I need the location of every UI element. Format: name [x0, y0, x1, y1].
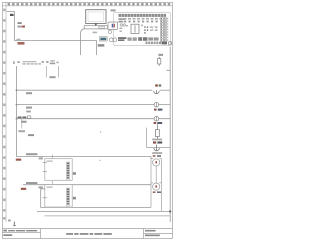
- rung2 label: [26, 107, 32, 109]
- fuse F上 label: [158, 54, 163, 56]
- junction dot at bus: [169, 211, 171, 213]
- socket symbol rung2: [154, 102, 159, 107]
- box1 label m: [73, 172, 76, 175]
- node label L+: [10, 14, 14, 16]
- PLC module second row marks: [120, 21, 158, 23]
- module bottom text row: [118, 37, 126, 41]
- motor2 return wire: [37, 210, 170, 212]
- bottom-left page mark: [8, 220, 16, 226]
- wire PC cable: [81, 29, 85, 55]
- rung3 text cluster on line: [18, 117, 27, 119]
- small device icon left of module: [108, 22, 118, 34]
- title block text left row2: [3, 234, 12, 236]
- motor series center wire: [155, 166, 157, 183]
- contact dots inside module: [144, 26, 148, 33]
- sensor label: [49, 76, 55, 78]
- box2 top pin tick: [52, 181, 54, 185]
- speck on rung: [100, 160, 101, 161]
- rung 3 wire: [17, 118, 171, 120]
- junction rung1: [16, 89, 18, 91]
- title block text left row1: [3, 230, 37, 232]
- right bus wire: [169, 47, 171, 223]
- speck mid page: [100, 131, 101, 132]
- PE return wire: [45, 215, 171, 217]
- teal status box under monitor: [99, 37, 107, 41]
- left bus wire: [17, 66, 152, 157]
- left ruler row numbers: [3, 9, 5, 220]
- socket symbol rung3: [154, 116, 159, 121]
- motor1 label pair: [153, 155, 156, 157]
- stub wire below rung3: [21, 119, 23, 129]
- terminal label row: [152, 139, 162, 141]
- plug symbol 2: [154, 145, 160, 151]
- wire L+ feed top-left: [7, 12, 97, 56]
- tiny text right of device icon: [118, 18, 125, 22]
- rung3 label below: [21, 121, 27, 123]
- PLC right pin column: [160, 18, 166, 42]
- plug label pair above: [155, 84, 158, 86]
- motor1 label row: [152, 152, 162, 154]
- rung1 label: [26, 92, 32, 94]
- motor1 red dot: [155, 161, 157, 163]
- fuse label F1 red: [18, 42, 25, 45]
- motor2 red dot: [155, 185, 157, 187]
- PLC module outline: [114, 13, 171, 46]
- wire rung corner to motor1: [150, 157, 152, 159]
- box2 rung labels: [26, 182, 37, 184]
- label wire end: [98, 44, 105, 46]
- title block center text: [66, 233, 112, 235]
- border frame outer: [3, 3, 173, 239]
- terminal strip row labels: [13, 60, 59, 64]
- rung3 label pair below: [154, 122, 157, 124]
- title block right texts: [145, 230, 160, 236]
- wire A motor2 feed: [23, 184, 151, 186]
- relay symbol inside module: [131, 24, 139, 33]
- sensor device legs: [47, 66, 59, 78]
- wire PE branch: [147, 128, 171, 148]
- top ruler column numbers: [8, 3, 171, 5]
- contact on rung3: [28, 116, 31, 119]
- box2 label m: [73, 197, 76, 200]
- rung 2 wire: [17, 104, 171, 106]
- starter box 2: [43, 185, 73, 207]
- faint circle inside module: [153, 27, 157, 31]
- box1 rung labels: [26, 153, 37, 155]
- plug symbol rung1: [154, 90, 160, 93]
- right bus tick: [167, 69, 170, 71]
- rung2 label pair below: [154, 109, 157, 111]
- title block: [3, 229, 173, 239]
- motor 2: [151, 183, 161, 190]
- stub label 2: [28, 134, 34, 136]
- fuse symbol top right: [158, 57, 161, 66]
- label under monitor base: [93, 32, 98, 34]
- rung3 small label above: [26, 111, 31, 113]
- module interior specks: [120, 25, 158, 32]
- motor cage right wire: [160, 159, 162, 212]
- motor cage left wire: [150, 159, 152, 208]
- terminal label pair: [153, 141, 156, 143]
- motor1 return wire: [41, 189, 151, 208]
- PLC module pin label row: [119, 18, 163, 20]
- border frame ruler lines: [3, 3, 173, 223]
- starter box 1: [43, 159, 73, 181]
- box1 top pin tick: [52, 155, 54, 159]
- fuse 2 symbol mid right: [156, 123, 160, 139]
- motor 1: [151, 159, 161, 166]
- bus terminal circle at module right: [168, 42, 171, 45]
- stub label 1: [18, 130, 25, 132]
- rung 1 wire: [17, 89, 153, 91]
- module bottom pin row: [146, 42, 162, 45]
- module inner edge ticks: [167, 18, 168, 41]
- PC monitor: [84, 10, 107, 29]
- module name label: [111, 9, 116, 11]
- tiny circles inside module: [120, 24, 125, 26]
- feeder labels left: [18, 22, 22, 24]
- chain link circles: [109, 38, 116, 42]
- PLC module top pin band: [119, 14, 167, 17]
- motor2 label pair: [153, 191, 156, 193]
